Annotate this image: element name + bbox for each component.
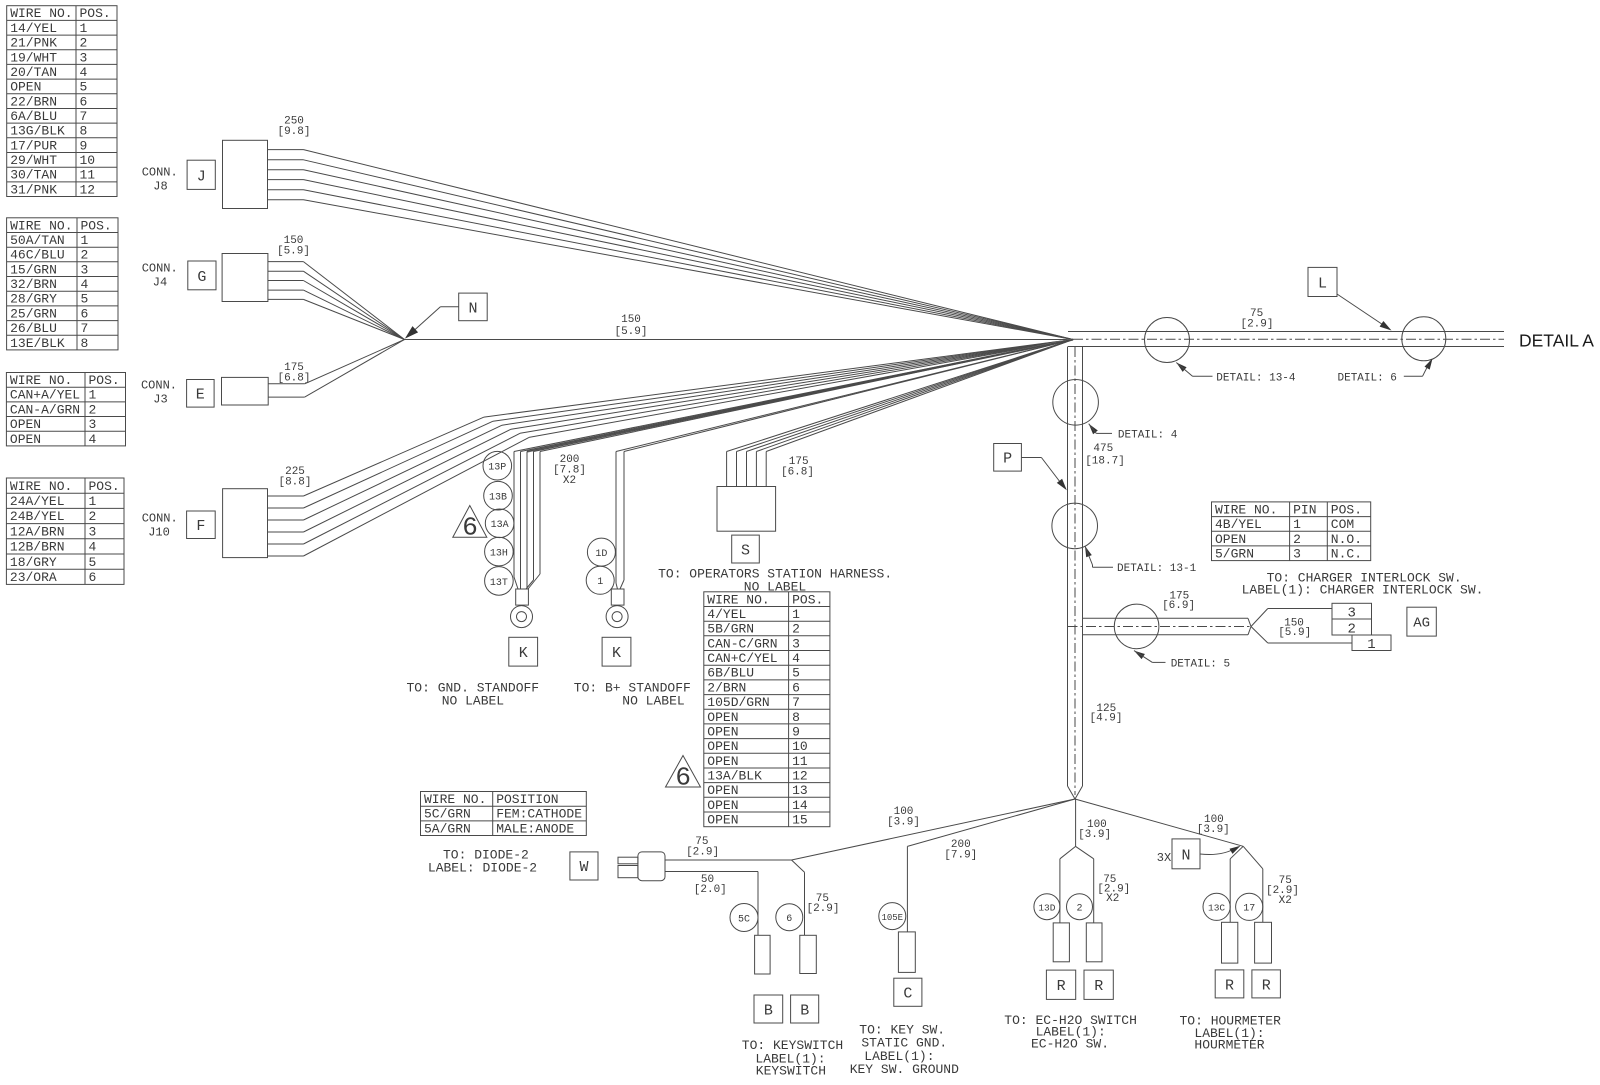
label box B 2 — [791, 995, 819, 1023]
detail circle 13-4 — [1145, 318, 1190, 363]
dimension 250 [9.8] — [277, 116, 310, 139]
svg-text:13H: 13H — [490, 549, 508, 560]
svg-text:L: L — [1318, 275, 1327, 292]
svg-text:1: 1 — [89, 494, 97, 509]
svg-text:N: N — [468, 300, 477, 317]
svg-text:W: W — [579, 859, 588, 876]
dimension 100 [3.9] ec-h2o — [1078, 819, 1111, 841]
svg-text:29/WHT: 29/WHT — [10, 153, 57, 168]
svg-text:DETAIL A: DETAIL A — [1519, 331, 1594, 351]
svg-text:FEM:CATHODE: FEM:CATHODE — [496, 807, 582, 822]
terminal 17 — [1255, 922, 1272, 963]
svg-text:N.C.: N.C. — [1331, 547, 1362, 562]
svg-text:J: J — [197, 168, 206, 185]
svg-text:7: 7 — [81, 321, 89, 336]
svg-text:PIN: PIN — [1293, 502, 1316, 517]
wire diode to keyswitch junction — [665, 859, 792, 861]
svg-text:13E/BLK: 13E/BLK — [10, 336, 65, 351]
svg-text:EC-H2O SW.: EC-H2O SW. — [1031, 1037, 1109, 1052]
svg-text:WIRE NO.: WIRE NO. — [10, 6, 72, 21]
svg-text:6: 6 — [81, 306, 89, 321]
svg-text:7: 7 — [792, 695, 800, 710]
svg-text:25/GRN: 25/GRN — [10, 306, 57, 321]
svg-text:WIRE NO.: WIRE NO. — [1215, 502, 1277, 517]
svg-text:6: 6 — [675, 763, 691, 793]
svg-text:2: 2 — [792, 622, 800, 637]
svg-text:12B/BRN: 12B/BRN — [10, 540, 65, 555]
svg-text:4: 4 — [89, 540, 97, 555]
wire table operators station harness — [704, 592, 830, 828]
detail circle 5 — [1114, 604, 1159, 649]
svg-text:1D: 1D — [595, 549, 607, 560]
svg-text:5A/GRN: 5A/GRN — [424, 821, 471, 836]
detail circle 6 — [1402, 317, 1446, 361]
svg-text:OPEN: OPEN — [10, 80, 41, 95]
svg-text:S: S — [741, 542, 750, 559]
leader arrow from L to trunk — [1337, 294, 1392, 331]
svg-text:13: 13 — [792, 783, 808, 798]
svg-text:POS.: POS. — [89, 373, 120, 388]
dimension 200 [7.9] — [944, 839, 977, 862]
svg-text:6: 6 — [786, 914, 792, 925]
svg-text:R: R — [1262, 977, 1271, 994]
terminal 5C — [755, 935, 771, 974]
charger interlock branch wires — [1068, 609, 1353, 644]
svg-text:10: 10 — [792, 739, 808, 754]
svg-text:OPEN: OPEN — [10, 417, 41, 432]
dimension 475 [18.7] — [1085, 443, 1125, 468]
wire label circle 13B — [484, 481, 513, 510]
label box E — [187, 380, 215, 408]
svg-text:15: 15 — [792, 813, 808, 828]
svg-text:13A/BLK: 13A/BLK — [707, 769, 762, 784]
svg-text:23/ORA: 23/ORA — [10, 570, 57, 585]
svg-text:K: K — [519, 645, 528, 662]
svg-text:[6.8]: [6.8] — [277, 373, 310, 385]
note triangle 6 at table — [666, 756, 701, 793]
svg-text:2: 2 — [1293, 532, 1301, 547]
svg-text:1: 1 — [597, 577, 603, 588]
wire label circle 13P — [483, 451, 512, 480]
svg-text:KEYSWITCH: KEYSWITCH — [756, 1064, 826, 1079]
svg-text:6: 6 — [89, 570, 97, 585]
svg-text:2/BRN: 2/BRN — [707, 680, 746, 695]
text TO KEYSWITCH — [742, 1038, 843, 1079]
leader DETAIL: 4 — [1089, 424, 1178, 442]
terminal 2 — [1086, 923, 1102, 962]
ring terminal GND standoff — [511, 589, 533, 628]
text TO B+ STANDOFF — [574, 681, 691, 709]
leader DETAIL: 13-4 — [1176, 363, 1296, 385]
svg-text:DETAIL: 6: DETAIL: 6 — [1338, 373, 1397, 385]
svg-text:4: 4 — [80, 65, 88, 80]
wire table diode-2 — [421, 792, 587, 837]
main trunk vertical — [1068, 347, 1083, 800]
wires 13x group to node A — [514, 340, 1073, 590]
detail circle 4 — [1053, 380, 1099, 426]
svg-text:20/TAN: 20/TAN — [10, 65, 57, 80]
svg-text:OPEN: OPEN — [707, 754, 738, 769]
svg-text:2: 2 — [1076, 904, 1082, 915]
svg-text:G: G — [197, 269, 206, 286]
svg-text:14/YEL: 14/YEL — [10, 21, 57, 36]
connector J8 — [223, 140, 268, 208]
svg-text:3: 3 — [89, 417, 97, 432]
svg-text:OPEN: OPEN — [707, 710, 738, 725]
wire label circle 5C — [730, 904, 758, 932]
label box AG — [1407, 607, 1436, 636]
label box R 3 — [1215, 970, 1244, 998]
svg-text:5C/GRN: 5C/GRN — [424, 807, 471, 822]
svg-text:J4: J4 — [153, 276, 167, 290]
dimension 150 [5.9] J4 — [277, 235, 310, 258]
svg-text:14: 14 — [792, 798, 808, 813]
leader arrow from P to trunk — [1021, 458, 1066, 491]
svg-text:26/BLU: 26/BLU — [10, 321, 57, 336]
svg-text:OPEN: OPEN — [707, 725, 738, 740]
svg-text:[3.9]: [3.9] — [1078, 829, 1111, 841]
wire label circle 6 — [776, 904, 803, 931]
svg-text:LABEL: DIODE-2: LABEL: DIODE-2 — [428, 861, 537, 876]
svg-text:105E: 105E — [881, 913, 903, 923]
svg-text:OPEN: OPEN — [707, 739, 738, 754]
label box W — [570, 852, 598, 880]
svg-text:WIRE NO.: WIRE NO. — [424, 792, 486, 807]
svg-text:5B/GRN: 5B/GRN — [707, 622, 754, 637]
svg-text:13G/BLK: 13G/BLK — [10, 124, 65, 139]
svg-text:7: 7 — [80, 109, 88, 124]
svg-text:11: 11 — [792, 754, 808, 769]
svg-text:CAN+A/YEL: CAN+A/YEL — [10, 388, 80, 403]
label box N 3X — [1157, 839, 1200, 869]
svg-text:DETAIL: 13-4: DETAIL: 13-4 — [1216, 373, 1296, 385]
svg-text:COM: COM — [1331, 517, 1354, 532]
svg-text:17/PUR: 17/PUR — [10, 138, 57, 153]
wires from J3 to node N — [268, 340, 404, 398]
svg-text:1: 1 — [1367, 637, 1375, 653]
svg-text:N.O.: N.O. — [1331, 532, 1362, 547]
wire label circle 13D — [1034, 894, 1060, 920]
wires from J10 to node A — [268, 340, 1074, 557]
svg-text:32/BRN: 32/BRN — [10, 277, 57, 292]
svg-text:6: 6 — [462, 513, 478, 543]
ring terminal B+ standoff — [606, 589, 628, 628]
wires from J4 to node N — [268, 262, 405, 340]
svg-text:POS.: POS. — [792, 592, 823, 607]
svg-text:5/GRN: 5/GRN — [1215, 547, 1254, 562]
svg-text:2: 2 — [81, 248, 89, 263]
svg-text:12: 12 — [80, 182, 96, 197]
svg-text:R: R — [1057, 978, 1066, 995]
svg-text:24B/YEL: 24B/YEL — [10, 509, 65, 524]
leader DETAIL: 6 — [1338, 359, 1433, 385]
svg-text:[6.9]: [6.9] — [1162, 600, 1195, 612]
svg-text:6A/BLU: 6A/BLU — [10, 109, 57, 124]
svg-text:5: 5 — [792, 666, 800, 681]
svg-text:X2: X2 — [1106, 893, 1119, 905]
dimension 150 [5.9] trunk — [614, 314, 647, 338]
terminal 13C — [1222, 922, 1238, 963]
wire label circle 105E — [879, 903, 906, 930]
svg-text:CONN.: CONN. — [142, 262, 178, 276]
svg-text:5: 5 — [80, 80, 88, 95]
svg-text:K: K — [612, 645, 621, 662]
wires from J8 to node A — [268, 150, 1074, 340]
dimension 75 [2.9] X2 ec-h2o — [1097, 874, 1130, 905]
leader arrow to node N — [405, 307, 459, 339]
svg-text:50A/TAN: 50A/TAN — [10, 233, 65, 248]
svg-text:WIRE NO.: WIRE NO. — [10, 373, 72, 388]
wire label circle 13A — [485, 509, 514, 538]
svg-text:5C: 5C — [738, 914, 750, 925]
svg-text:13B: 13B — [489, 493, 507, 504]
svg-text:C: C — [903, 986, 912, 1003]
svg-text:E: E — [196, 387, 205, 404]
svg-text:[2.0]: [2.0] — [694, 884, 727, 896]
svg-text:12A/BRN: 12A/BRN — [10, 524, 65, 539]
dimension 150 [5.9] charger — [1278, 618, 1311, 640]
svg-text:12: 12 — [792, 769, 808, 784]
svg-text:CAN-A/GRN: CAN-A/GRN — [10, 402, 80, 417]
svg-text:10: 10 — [80, 153, 96, 168]
dimension 100 [3.9] keyswitch — [887, 806, 920, 829]
text CONN. J4 — [142, 262, 178, 290]
dimension 75 [2.9] keyswitch — [806, 893, 839, 915]
wire node N to node A — [405, 339, 1074, 341]
svg-text:J10: J10 — [148, 526, 170, 540]
svg-text:OPEN: OPEN — [10, 432, 41, 447]
wire table CONN. J10 — [6, 478, 124, 585]
svg-text:J8: J8 — [153, 180, 167, 194]
svg-text:1: 1 — [81, 233, 89, 248]
svg-text:CONN.: CONN. — [141, 379, 177, 393]
svg-text:9: 9 — [80, 138, 88, 153]
svg-text:[3.9]: [3.9] — [1197, 824, 1230, 836]
svg-text:13C: 13C — [1208, 903, 1225, 914]
label box R 4 — [1252, 970, 1281, 998]
svg-text:POS.: POS. — [89, 479, 120, 494]
main trunk horizontal DETAIL A — [1068, 332, 1504, 347]
svg-text:31/PNK: 31/PNK — [10, 182, 57, 197]
label box B 1 — [754, 995, 783, 1023]
svg-text:CONN.: CONN. — [142, 512, 178, 526]
svg-text:B: B — [764, 1002, 773, 1019]
wire label circle 13C — [1203, 893, 1230, 920]
svg-text:J3: J3 — [153, 393, 167, 407]
label box G — [188, 261, 216, 290]
svg-text:6: 6 — [80, 94, 88, 109]
terminal 105E — [898, 932, 915, 973]
detail circle 13-1 — [1052, 503, 1098, 549]
svg-text:WIRE NO.: WIRE NO. — [10, 218, 72, 233]
wire label circle 17 — [1236, 893, 1263, 920]
svg-text:[3.9]: [3.9] — [887, 817, 920, 829]
svg-text:22/BRN: 22/BRN — [10, 94, 57, 109]
svg-text:1: 1 — [1293, 517, 1301, 532]
label box R 1 — [1046, 970, 1075, 999]
svg-text:4: 4 — [81, 277, 89, 292]
connector J10 — [223, 489, 268, 558]
svg-text:N: N — [1181, 847, 1190, 864]
svg-text:[2.9]: [2.9] — [1240, 319, 1273, 331]
svg-text:[2.9]: [2.9] — [686, 847, 719, 859]
dimension 225 [8.8] J10 — [278, 466, 311, 489]
svg-text:POSITION: POSITION — [496, 792, 558, 807]
svg-text:3X: 3X — [1157, 851, 1171, 865]
svg-text:[4.9]: [4.9] — [1089, 713, 1122, 725]
text DETAIL A — [1519, 331, 1594, 351]
svg-text:DETAIL: 4: DETAIL: 4 — [1118, 429, 1178, 441]
svg-text:NO LABEL: NO LABEL — [442, 694, 504, 709]
label box C — [894, 978, 922, 1006]
wire trunk to key sw static ground — [907, 799, 1075, 932]
wires trunk to hourmeter — [1075, 799, 1263, 922]
text TO GND STANDOFF — [406, 681, 539, 709]
svg-text:KEY SW. GROUND: KEY SW. GROUND — [850, 1062, 959, 1077]
svg-text:P: P — [1003, 451, 1012, 468]
svg-text:5: 5 — [81, 292, 89, 307]
svg-text:17: 17 — [1243, 904, 1255, 915]
label box J — [187, 160, 215, 189]
wires S connector to node A — [727, 340, 1073, 487]
dimension 75 [2.9] trunk — [1240, 308, 1273, 331]
svg-text:[18.7]: [18.7] — [1085, 456, 1125, 468]
svg-text:28/GRY: 28/GRY — [10, 292, 57, 307]
svg-text:B: B — [800, 1002, 809, 1019]
leader DETAIL: 13-1 — [1085, 546, 1197, 575]
svg-text:MALE:ANODE: MALE:ANODE — [496, 821, 574, 836]
svg-text:4: 4 — [792, 651, 800, 666]
svg-text:[9.8]: [9.8] — [277, 126, 310, 138]
svg-text:30/TAN: 30/TAN — [10, 168, 57, 183]
svg-text:24A/YEL: 24A/YEL — [10, 494, 65, 509]
svg-text:2: 2 — [80, 36, 88, 51]
wire label circle 13H — [485, 537, 514, 566]
charger interlock connector pin 3 — [1332, 603, 1372, 621]
dimension 125 [4.9] — [1089, 703, 1122, 725]
wire table CONN. J4 — [7, 218, 118, 351]
svg-text:9: 9 — [792, 725, 800, 740]
dimension 175 [6.8] J3 — [277, 362, 310, 385]
charger interlock connector pin 1 — [1352, 635, 1391, 653]
text TO HOURMETER — [1179, 1014, 1281, 1053]
svg-text:[5.9]: [5.9] — [614, 326, 647, 338]
svg-text:3: 3 — [1293, 547, 1301, 562]
svg-text:[2.9]: [2.9] — [806, 903, 839, 915]
svg-text:8: 8 — [792, 710, 800, 725]
svg-text:OPEN: OPEN — [1215, 532, 1246, 547]
svg-text:4/YEL: 4/YEL — [707, 607, 746, 622]
svg-text:DETAIL: 13-1: DETAIL: 13-1 — [1117, 563, 1197, 575]
svg-text:[8.8]: [8.8] — [278, 477, 311, 489]
text CONN. J8 — [142, 166, 178, 194]
svg-text:NO LABEL: NO LABEL — [744, 580, 806, 595]
svg-text:1: 1 — [792, 607, 800, 622]
svg-text:R: R — [1225, 977, 1234, 994]
terminal 6 — [800, 935, 817, 973]
terminal 13D — [1053, 923, 1069, 962]
svg-text:POS.: POS. — [80, 6, 111, 21]
svg-text:R: R — [1094, 978, 1103, 995]
svg-text:[5.9]: [5.9] — [277, 246, 310, 258]
dimension 50 [2.0] — [694, 874, 727, 896]
diode connector DIODE-2 — [618, 852, 665, 881]
connector operators station — [717, 487, 776, 532]
label box P — [994, 444, 1022, 472]
wire diode to 5C terminal — [665, 872, 758, 936]
wire table charger interlock sw — [1212, 502, 1371, 562]
svg-text:475: 475 — [1093, 443, 1113, 455]
svg-text:1: 1 — [80, 21, 88, 36]
svg-text:46C/BLU: 46C/BLU — [10, 248, 65, 263]
svg-text:6B/BLU: 6B/BLU — [707, 666, 754, 681]
svg-text:21/PNK: 21/PNK — [10, 36, 57, 51]
wire junction to keyswitch 6 terminal — [792, 860, 805, 935]
label box K gnd — [509, 637, 538, 666]
wire label circle 1D — [587, 538, 615, 566]
label box S — [732, 535, 760, 563]
dimension 175 [6.8] S — [781, 456, 814, 479]
dimension 75 [2.9] diode — [686, 836, 719, 859]
svg-text:3: 3 — [81, 262, 89, 277]
svg-text:OPEN: OPEN — [707, 798, 738, 813]
svg-text:CAN-C/GRN: CAN-C/GRN — [707, 636, 777, 651]
connector J3 — [222, 377, 269, 405]
svg-text:X2: X2 — [1279, 895, 1292, 907]
leader DETAIL: 5 — [1134, 651, 1230, 671]
svg-text:18/GRY: 18/GRY — [10, 555, 57, 570]
svg-text:11: 11 — [80, 168, 96, 183]
text CONN. J10 — [142, 512, 178, 540]
svg-text:OPEN: OPEN — [707, 813, 738, 828]
wire label circle 2 — [1067, 894, 1093, 920]
svg-text:[7.9]: [7.9] — [944, 850, 977, 862]
svg-text:DETAIL: 5: DETAIL: 5 — [1171, 658, 1230, 670]
svg-text:150: 150 — [621, 314, 641, 326]
svg-text:1: 1 — [89, 388, 97, 403]
dimension 75 [2.9] X2 hourmeter — [1266, 875, 1299, 907]
svg-text:15/GRN: 15/GRN — [10, 262, 57, 277]
svg-text:F: F — [196, 518, 205, 535]
text TO CHARGER INTERLOCK SW — [1242, 571, 1484, 598]
wires 1D group to node A — [616, 340, 1073, 590]
svg-text:6: 6 — [792, 680, 800, 695]
svg-text:13P: 13P — [488, 463, 506, 474]
svg-text:3: 3 — [89, 524, 97, 539]
label box K b+ — [602, 637, 631, 666]
note triangle 6 at 13A — [453, 506, 487, 543]
svg-text:13D: 13D — [1038, 902, 1055, 913]
text TO DIODE-2 — [428, 848, 537, 876]
svg-text:CAN+C/YEL: CAN+C/YEL — [707, 651, 777, 666]
svg-text:CONN.: CONN. — [142, 166, 178, 180]
dimension 100 [3.9] hourmeter — [1197, 814, 1230, 836]
wire label circle 1 — [586, 566, 614, 594]
svg-text:X2: X2 — [563, 475, 576, 487]
leader arrow N to hourmeter split — [1200, 846, 1241, 855]
svg-text:HOURMETER: HOURMETER — [1194, 1038, 1264, 1053]
svg-text:POS.: POS. — [1331, 502, 1362, 517]
svg-text:LABEL(1): CHARGER INTERLOCK SW: LABEL(1): CHARGER INTERLOCK SW. — [1242, 583, 1484, 598]
svg-text:5: 5 — [89, 555, 97, 570]
text TO EC-H2O SWITCH — [1004, 1013, 1137, 1052]
charger interlock connector pin 2 — [1332, 619, 1372, 637]
svg-text:19/WHT: 19/WHT — [10, 50, 57, 65]
svg-text:2: 2 — [89, 509, 97, 524]
wire table CONN. J8 — [7, 6, 117, 198]
svg-text:4B/YEL: 4B/YEL — [1215, 517, 1262, 532]
label box R 2 — [1084, 970, 1113, 999]
